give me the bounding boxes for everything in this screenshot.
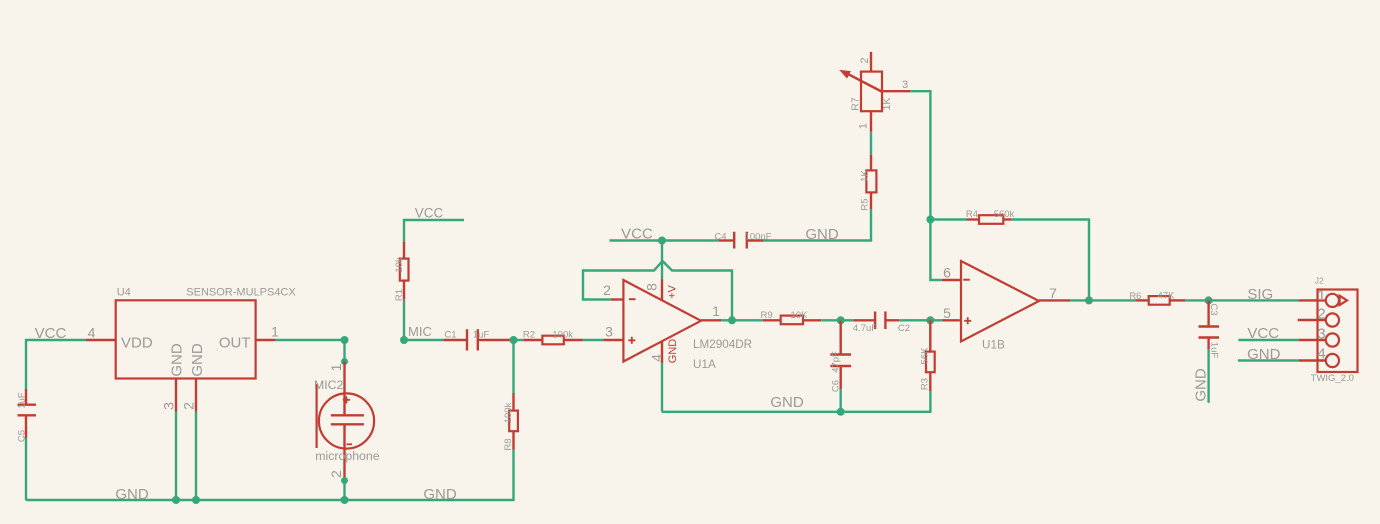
svg-text:6: 6 xyxy=(943,265,951,281)
svg-text:10K: 10K xyxy=(791,310,809,321)
wire junction down to R8 xyxy=(512,340,514,393)
junction xyxy=(341,496,349,504)
wire U4 pin2 to GND rail xyxy=(195,412,197,501)
wire VCC to J2 pin3 xyxy=(1238,339,1298,341)
wire R2 to U1A pin3 xyxy=(583,339,604,341)
svg-text:C3: C3 xyxy=(1208,303,1219,315)
svg-text:VCC: VCC xyxy=(415,206,444,221)
pin 2 of U4 xyxy=(195,379,197,412)
svg-text:3: 3 xyxy=(902,79,908,91)
svg-text:1uF: 1uF xyxy=(1209,342,1220,359)
svg-text:microphone: microphone xyxy=(315,449,379,463)
wire R5 to R7 pin1 xyxy=(870,132,872,155)
svg-text:J2: J2 xyxy=(1315,276,1324,286)
wire U1B output xyxy=(1070,299,1089,301)
svg-text:R4: R4 xyxy=(966,209,978,220)
svg-text:2: 2 xyxy=(859,57,871,63)
svg-text:1uF: 1uF xyxy=(473,330,490,341)
svg-text:GND: GND xyxy=(115,486,149,503)
svg-text:5: 5 xyxy=(943,305,951,321)
junction xyxy=(837,316,845,324)
junction after C1 xyxy=(510,336,518,344)
svg-text:2: 2 xyxy=(180,402,196,410)
wire bottom GND rail xyxy=(26,450,514,501)
pin 6 of U1B xyxy=(942,279,961,281)
junction xyxy=(926,216,934,224)
wire R4 to U1B output xyxy=(1012,220,1089,301)
op-amp U1B xyxy=(961,261,1039,352)
svg-text:560k: 560k xyxy=(994,209,1015,220)
svg-text:R2: R2 xyxy=(523,330,535,341)
svg-text:R6: R6 xyxy=(1129,291,1141,302)
svg-text:100k: 100k xyxy=(552,330,573,341)
junction xyxy=(1205,296,1213,304)
junction xyxy=(400,336,408,344)
wire C2 to pin5 junction xyxy=(899,319,942,321)
pin 2 of J2 xyxy=(1298,319,1326,321)
wire GND to J2 pin4 xyxy=(1238,359,1299,361)
svg-text:GND: GND xyxy=(667,339,679,364)
svg-text:C1: C1 xyxy=(444,330,456,341)
capacitor C1 xyxy=(443,329,511,350)
svg-text:GND: GND xyxy=(770,394,804,411)
connector J2 TWIG_2.0 xyxy=(1311,276,1358,384)
svg-text:2: 2 xyxy=(603,282,611,298)
svg-text:1: 1 xyxy=(712,303,720,319)
junction U1B output xyxy=(1085,296,1093,304)
pin 4 of U4 xyxy=(86,339,116,341)
svg-text:10k: 10k xyxy=(394,257,405,273)
svg-text:GND: GND xyxy=(168,343,185,377)
pin 2 of U1A xyxy=(611,298,623,300)
wire C6 to GND rail xyxy=(840,389,842,412)
capacitor C5 xyxy=(16,389,36,442)
svg-text:U1B: U1B xyxy=(982,339,1005,352)
svg-text:4: 4 xyxy=(1317,346,1325,363)
pin 3 of U4 xyxy=(175,379,177,412)
svg-text:VDD: VDD xyxy=(121,335,153,352)
pin 1 (OUT) of U4 xyxy=(256,339,276,341)
wire MIC node to C1 xyxy=(404,339,443,341)
wire R1 to VCC xyxy=(404,220,464,241)
resistor R1 xyxy=(394,241,409,301)
resistor R8 xyxy=(503,393,518,451)
junction U1A output xyxy=(728,316,736,324)
svg-text:MIC2: MIC2 xyxy=(314,378,344,392)
potentiometer R7 xyxy=(841,52,911,132)
resistor R5 xyxy=(859,155,876,211)
svg-text:R1: R1 xyxy=(394,289,405,301)
svg-text:1K: 1K xyxy=(881,98,893,111)
svg-text:1K: 1K xyxy=(859,170,870,182)
wire VCC left to U4 pin 4 xyxy=(26,340,86,389)
wire VCC rail xyxy=(610,239,719,241)
wire feedback U1A output to pin 2 xyxy=(583,261,732,320)
svg-text:TWIG_2.0: TWIG_2.0 xyxy=(1311,373,1354,384)
svg-text:GND: GND xyxy=(189,343,206,377)
wire mic pin2 to GND rail xyxy=(341,477,348,484)
wire R9 to junction xyxy=(821,319,841,321)
wire C4 to R5/R7 xyxy=(764,209,871,240)
junction xyxy=(192,496,200,504)
svg-text:GND: GND xyxy=(423,486,457,503)
wire OUT to mic node xyxy=(276,339,345,341)
microphone MIC2 xyxy=(314,362,380,479)
junction xyxy=(658,237,666,245)
svg-text:7: 7 xyxy=(1049,285,1057,301)
pin 1 of J2 xyxy=(1299,299,1326,301)
capacitor C2 xyxy=(841,312,910,335)
resistor R4 xyxy=(930,209,1014,224)
svg-text:56K: 56K xyxy=(919,347,930,365)
svg-text:R7: R7 xyxy=(850,97,862,111)
svg-text:LM2904DR: LM2904DR xyxy=(693,338,752,351)
svg-text:OUT: OUT xyxy=(219,335,251,352)
capacitor C3 xyxy=(1199,300,1220,358)
junction xyxy=(837,408,845,416)
svg-text:+V: +V xyxy=(666,284,678,298)
svg-text:8: 8 xyxy=(643,283,659,291)
wire R6 to C3 junction xyxy=(1185,299,1209,301)
svg-text:3: 3 xyxy=(1317,326,1325,343)
svg-text:47pF: 47pF xyxy=(830,351,841,373)
resistor R3 xyxy=(919,320,934,391)
svg-text:1: 1 xyxy=(1317,287,1325,304)
svg-text:U1A: U1A xyxy=(693,358,716,371)
pin 1 of U1A xyxy=(701,319,721,321)
svg-text:R5: R5 xyxy=(859,198,870,210)
wire mic node down xyxy=(343,340,345,362)
svg-text:1: 1 xyxy=(271,324,279,340)
pin 3 of J2 xyxy=(1299,339,1326,341)
wire U1A output xyxy=(721,319,732,321)
wire VCC to pin 8 xyxy=(661,241,663,280)
junction xyxy=(341,336,349,344)
pin 7 of U1B xyxy=(1039,299,1070,301)
wire GND rail (op-amp) xyxy=(661,363,663,412)
wire junction down to U1B pin 6 xyxy=(930,220,941,281)
junction xyxy=(172,496,180,504)
svg-text:4.7uF: 4.7uF xyxy=(853,323,877,334)
junction xyxy=(926,316,934,324)
wire SIG to J2 pin1 xyxy=(1209,299,1299,301)
pin 8 of U1A xyxy=(661,280,663,301)
op-amp U1A LM2904DR xyxy=(623,280,752,371)
IC U4 SENSOR-MULPS4CX xyxy=(116,287,297,379)
pin 3 of U1A xyxy=(603,339,623,341)
resistor R6 xyxy=(1089,291,1185,305)
svg-text:R9: R9 xyxy=(761,310,773,321)
svg-text:3: 3 xyxy=(605,324,613,340)
wire C5 to GND rail xyxy=(25,438,27,500)
svg-text:1uF: 1uF xyxy=(16,392,27,409)
svg-text:MIC: MIC xyxy=(408,324,432,339)
svg-text:1: 1 xyxy=(328,363,344,371)
pin 4 of J2 xyxy=(1299,359,1326,361)
wire R1 vertical xyxy=(403,299,405,340)
svg-text:4: 4 xyxy=(648,354,664,362)
svg-text:U4: U4 xyxy=(117,287,131,299)
wire C3 to GND stub xyxy=(1207,349,1209,403)
pin 5 of U1B xyxy=(943,319,962,321)
capacitor C6 xyxy=(830,320,851,392)
svg-text:1: 1 xyxy=(857,123,869,129)
svg-text:100k: 100k xyxy=(503,402,514,423)
svg-text:4: 4 xyxy=(88,325,96,341)
svg-text:C2: C2 xyxy=(898,323,910,334)
svg-text:R3: R3 xyxy=(919,378,930,390)
svg-text:2: 2 xyxy=(1317,306,1325,323)
svg-text:R8: R8 xyxy=(503,438,514,450)
wire U4 pin3 to GND rail xyxy=(175,412,177,501)
svg-text:3: 3 xyxy=(160,402,176,410)
resistor R9 xyxy=(732,310,821,324)
capacitor C4 xyxy=(714,232,771,249)
svg-text:SENSOR-MULPS4CX: SENSOR-MULPS4CX xyxy=(186,287,296,299)
svg-text:GND: GND xyxy=(1192,368,1209,402)
svg-text:47K: 47K xyxy=(1158,291,1176,302)
wire R7 pin3 to R4/pin6 xyxy=(910,91,930,219)
pin 4 of U1A xyxy=(661,341,663,363)
svg-text:2: 2 xyxy=(328,470,344,478)
resistor R2 xyxy=(514,330,583,345)
svg-text:C4: C4 xyxy=(714,232,726,243)
